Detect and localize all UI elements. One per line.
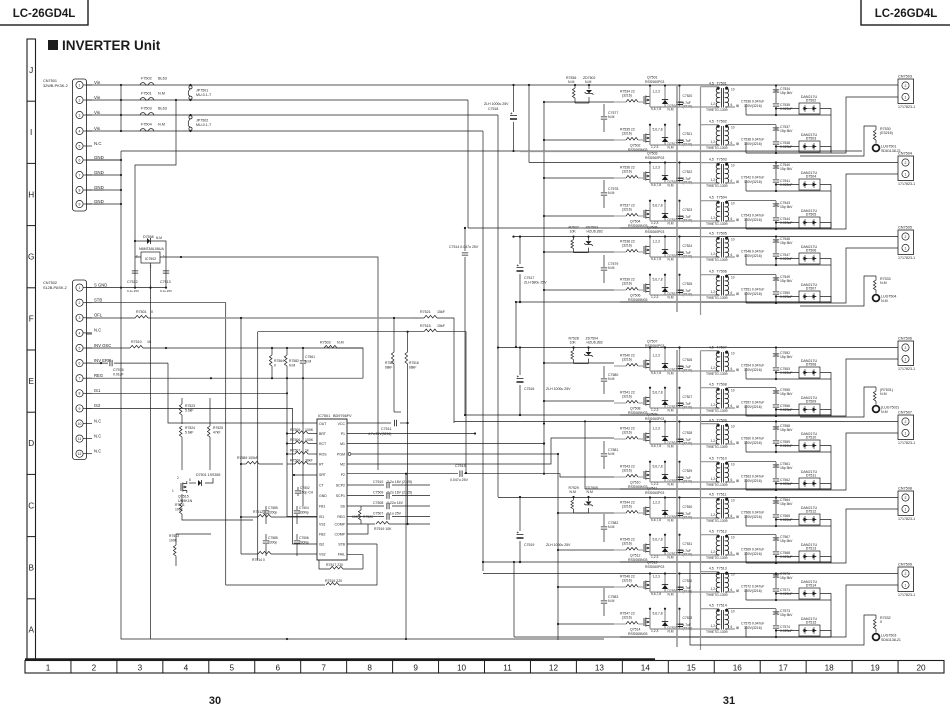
diode pack D7514 (799, 588, 820, 599)
wire pair bottom rails gray overlay (620, 151, 831, 153)
svg-text:N.M: N.M (668, 372, 674, 376)
wire Vin tie vertical (120, 85, 122, 131)
svg-text:8: 8 (367, 663, 372, 672)
svg-text:D: D (28, 439, 34, 448)
wire channel drop (649, 86, 651, 108)
svg-text:A: A (28, 626, 34, 635)
diode pack D7504 (799, 179, 820, 190)
resistor R7539 (626, 287, 638, 290)
svg-text:D7510: D7510 (806, 436, 817, 440)
svg-text:1: 1 (905, 357, 907, 361)
svg-text:100V(3216): 100V(3216) (744, 479, 762, 483)
CN7506 pin 1 (902, 355, 909, 362)
svg-text:6: 6 (731, 217, 733, 221)
svg-text:LC-26GD4L: LC-26GD4L (875, 8, 938, 20)
svg-text:IC7501: IC7501 (318, 414, 330, 418)
svg-text:N.M: N.M (570, 490, 577, 494)
svg-text:N.M: N.M (587, 490, 594, 494)
wire lamp output low (728, 461, 776, 463)
svg-text:(3216): (3216) (622, 207, 632, 211)
svg-text:100V(3216): 100V(3216) (744, 441, 762, 445)
svg-text:D7514: D7514 (806, 584, 817, 588)
capacitor C7564 (775, 498, 777, 501)
svg-text:5,6,7,8: 5,6,7,8 (651, 183, 661, 187)
svg-text:6: 6 (275, 663, 280, 672)
svg-text:330Np: 330Np (299, 510, 309, 514)
svg-text:CN7506: CN7506 (898, 337, 912, 341)
svg-text:15p 5kV: 15p 5kV (780, 205, 793, 209)
wire source/gnd link (650, 628, 716, 630)
connector CN7502 (73, 280, 87, 460)
svg-text:15p 5kV: 15p 5kV (780, 576, 793, 580)
CN7502 pin 2 (76, 299, 83, 306)
capacitor C7534 (775, 86, 777, 90)
capacitor C7550 (773, 292, 779, 294)
svg-text:IS2: IS2 (319, 542, 324, 546)
svg-text:2: 2 (79, 98, 81, 102)
diode D7527 (664, 535, 666, 555)
svg-text:0.023uF: 0.023uF (780, 145, 792, 149)
capacitor C7563 (736, 480, 739, 483)
capacitor C7504 (296, 506, 298, 510)
svg-text:RSS065N03: RSS065N03 (628, 298, 648, 302)
svg-text:N.M: N.M (289, 364, 295, 368)
capacitor C7523 (679, 201, 681, 221)
svg-text:S GND: S GND (94, 282, 107, 287)
svg-text:E: E (28, 377, 34, 386)
svg-text:1,2: 1,2 (711, 178, 716, 182)
resistor R7564 (271, 348, 273, 355)
svg-text:4: 4 (79, 331, 81, 335)
svg-text:0.22u 16V: 0.22u 16V (387, 501, 404, 505)
svg-text:1717823-1: 1717823-1 (898, 256, 915, 260)
resistor R7508 (287, 463, 295, 465)
svg-text:10: 10 (731, 498, 735, 502)
wire PGM (348, 453, 351, 456)
capacitor C7522 (679, 163, 681, 184)
diode pack D7503 (799, 141, 820, 152)
svg-text:1: 1 (905, 507, 907, 511)
svg-text:IS2: IS2 (94, 403, 101, 408)
wire gray buses (676, 86, 678, 647)
svg-text:FB1: FB1 (319, 504, 325, 508)
svg-text:N.M: N.M (880, 392, 887, 396)
svg-text:9: 9 (79, 407, 81, 411)
transistor Q7515 (181, 483, 183, 492)
svg-text:N.C: N.C (94, 418, 101, 423)
svg-text:10: 10 (731, 201, 735, 205)
svg-text:R7507: R7507 (290, 449, 300, 453)
wire channel drop (649, 348, 651, 372)
resistor R7511 (181, 494, 183, 503)
svg-text:R7521: R7521 (420, 310, 431, 314)
wire INV ERR (168, 363, 317, 423)
svg-text:C7585: C7585 (268, 536, 278, 540)
svg-text:5,6,7,8: 5,6,7,8 (653, 204, 663, 208)
svg-text:D7513: D7513 (806, 547, 817, 551)
capacitor C7555 (775, 388, 777, 390)
svg-text:1,2: 1,2 (711, 216, 716, 220)
svg-text:Vin: Vin (94, 110, 101, 115)
svg-text:C7526: C7526 (683, 358, 693, 362)
wire dan links (746, 552, 831, 563)
svg-text:1,2: 1,2 (711, 140, 716, 144)
transformer T7514 (721, 610, 723, 630)
svg-text:(3216): (3216) (622, 243, 632, 247)
svg-text:8: 8 (79, 392, 81, 396)
wire channel drop (649, 201, 651, 221)
capacitor C7586 (265, 534, 267, 540)
wire M2 (347, 438, 614, 464)
zener ZD7503 (588, 237, 590, 241)
svg-text:Vin: Vin (94, 126, 101, 131)
diode D7529 (664, 609, 666, 629)
svg-text:OFL: OFL (94, 313, 103, 318)
capacitor C7572 (736, 590, 739, 593)
wire source/gnd link (650, 370, 716, 372)
svg-text:4,5: 4,5 (709, 418, 714, 422)
svg-text:T7511: T7511 (717, 492, 727, 496)
svg-text:D7505: D7505 (806, 213, 817, 217)
svg-text:1717823-1: 1717823-1 (898, 182, 915, 186)
CN7503 pin 1 (902, 93, 909, 100)
wire IS2 (86, 408, 317, 544)
svg-text:ROS: ROS (319, 452, 327, 456)
wire dan links (746, 218, 831, 229)
capacitor C7509 (347, 495, 384, 497)
wire trunk D (528, 85, 530, 163)
svg-text:4,5: 4,5 (709, 81, 714, 85)
wire pair top rails (514, 236, 899, 238)
svg-text:RSS065N03: RSS065N03 (628, 148, 648, 152)
wire channel drop (649, 422, 651, 445)
wire dan links (746, 589, 831, 600)
wire secondary low (727, 294, 738, 295)
svg-text:(3216): (3216) (622, 430, 632, 434)
wire primary ties (701, 274, 719, 276)
wire primary ties (701, 86, 719, 88)
svg-text:7: 7 (79, 377, 81, 381)
svg-text:6: 6 (731, 440, 733, 444)
svg-text:15p 5kV: 15p 5kV (780, 129, 793, 133)
svg-text:1717823-1: 1717823-1 (898, 517, 915, 521)
svg-text:32WB-PK3K-2: 32WB-PK3K-2 (43, 84, 68, 88)
svg-text:10: 10 (731, 87, 735, 91)
resistor R7536 (574, 85, 576, 88)
svg-text:5,6,7,8: 5,6,7,8 (653, 128, 663, 132)
svg-text:N.M: N.M (337, 341, 344, 345)
wire source/gnd link (650, 144, 716, 146)
svg-text:1717823-1: 1717823-1 (898, 367, 915, 371)
svg-text:G: G (28, 253, 34, 262)
CN7501 pin 1 (76, 81, 83, 88)
resistor R7541 (626, 400, 638, 403)
CN7505 pin 2 (902, 233, 909, 240)
resistor R7528 (573, 348, 575, 351)
resistor R7516 (407, 332, 409, 352)
fuse F7502 (140, 83, 154, 85)
svg-text:R7514 0: R7514 0 (252, 558, 265, 562)
wire channel drop (649, 163, 651, 184)
svg-text:1: 1 (905, 431, 907, 435)
svg-text:10: 10 (457, 663, 467, 672)
wire INV OSC bias line (143, 348, 363, 378)
transformer T7503 (721, 164, 723, 184)
wire dan return (830, 526, 832, 563)
svg-text:31: 31 (723, 695, 735, 707)
svg-text:T99ETG-1309: T99ETG-1309 (706, 409, 728, 413)
CN7508 pin 2 (902, 494, 909, 501)
svg-text:15p 5kV: 15p 5kV (780, 466, 793, 470)
wire channel drop (649, 237, 651, 258)
svg-text:GND: GND (94, 199, 104, 204)
svg-text:15p 5kV: 15p 5kV (780, 355, 793, 359)
svg-text:CN7508: CN7508 (898, 487, 912, 491)
svg-text:0.023uF: 0.023uF (780, 629, 792, 633)
wire branch pin2 down to regulator (135, 100, 176, 241)
svg-text:LC-26GD4L: LC-26GD4L (13, 8, 76, 20)
model label box top-right (861, 0, 950, 25)
resistor R7523 (181, 398, 183, 404)
svg-text:VS2: VS2 (319, 552, 326, 556)
svg-text:C7527: C7527 (683, 395, 693, 399)
svg-text:R7516: R7516 (409, 361, 419, 365)
diode pack D7513 (799, 551, 820, 562)
svg-text:C7514 0.047u 25V: C7514 0.047u 25V (449, 245, 479, 249)
svg-text:C7522: C7522 (683, 170, 693, 174)
svg-text:N.C: N.C (94, 328, 101, 333)
diode D7558 (135, 241, 166, 257)
wire lamp output high (775, 84, 777, 86)
diode D7525 (664, 462, 666, 482)
svg-text:C7516: C7516 (524, 387, 534, 391)
svg-text:1,2: 1,2 (711, 550, 716, 554)
wire OFL (148, 317, 424, 319)
capacitor C7527 (679, 388, 681, 408)
wire source/gnd link (650, 106, 716, 108)
capacitor C7561 (775, 462, 777, 464)
svg-text:RCT: RCT (319, 442, 327, 446)
svg-text:100V(3216): 100V(3216) (744, 180, 762, 184)
svg-text:2: 2 (905, 84, 907, 88)
svg-text:5: 5 (230, 663, 235, 672)
wire S GND (86, 287, 166, 289)
lug terminal LUG7501 (873, 145, 880, 152)
svg-text:200Np: 200Np (299, 540, 309, 544)
diode D7519 (664, 201, 666, 221)
svg-text:30: 30 (209, 695, 221, 707)
resistor R7516b (226, 584, 325, 586)
svg-text:47kF: 47kF (213, 431, 221, 435)
capacitor C7562 (773, 479, 779, 481)
wire secondary low (727, 554, 738, 555)
capacitor C7519 electrolytic (519, 497, 521, 531)
wire secondary low (727, 481, 738, 482)
wire trunk C (497, 115, 499, 497)
CN7501 pin 8 (76, 186, 83, 193)
svg-text:RSS060P03: RSS060P03 (645, 344, 664, 348)
svg-text:N.M: N.M (608, 452, 615, 456)
svg-text:RSS060P03: RSS060P03 (645, 417, 664, 421)
svg-text:T99ETG-1309: T99ETG-1309 (706, 593, 728, 597)
wire secondary low (727, 144, 738, 145)
capacitor C7524 (679, 237, 681, 258)
svg-text:FAIL: FAIL (338, 552, 345, 556)
wire REG (86, 377, 363, 379)
wire primary ties (701, 162, 719, 164)
resistor R7519 (347, 523, 375, 525)
wire dan return (830, 600, 832, 637)
CN7502 pin 10 (76, 420, 83, 427)
svg-text:R7508: R7508 (290, 459, 300, 463)
svg-text:13: 13 (595, 663, 605, 672)
svg-text:T99ETG-1309: T99ETG-1309 (706, 146, 728, 150)
svg-text:JP7502: JP7502 (196, 119, 208, 123)
svg-text:4,5: 4,5 (709, 529, 714, 533)
resistor R7525 (209, 398, 211, 426)
capacitor C7508 (347, 505, 384, 507)
svg-text:1: 1 (46, 663, 51, 672)
svg-text:R7501: R7501 (136, 310, 147, 314)
svg-text:R7510: R7510 (131, 340, 142, 344)
diode D7501 (189, 482, 196, 484)
capacitor C7526 (679, 348, 681, 372)
wire trunk pin2 down (467, 100, 469, 228)
resistor R7547 (626, 621, 638, 624)
CN7502 pin 8 (76, 390, 83, 397)
capacitor C7538 (773, 142, 779, 144)
svg-text:(3216): (3216) (622, 615, 632, 619)
wire GND pin stub (86, 174, 121, 176)
svg-text:(3216): (3216) (622, 169, 632, 173)
svg-text:T7503: T7503 (717, 157, 727, 161)
wire dan links (746, 515, 831, 526)
svg-text:0: 0 (880, 620, 882, 624)
svg-text:15p 5kV: 15p 5kV (780, 241, 793, 245)
svg-text:0.1u 25V: 0.1u 25V (127, 289, 139, 293)
svg-text:CN7505: CN7505 (898, 226, 912, 230)
capacitor C7574 (773, 626, 779, 628)
svg-text:D7558: D7558 (143, 235, 154, 239)
svg-text:68kF: 68kF (385, 366, 392, 370)
svg-text:R7522: R7522 (385, 361, 395, 365)
svg-text:1,2,3: 1,2,3 (653, 575, 660, 579)
diode D7516 (664, 86, 666, 108)
svg-text:C7515: C7515 (455, 464, 466, 468)
svg-text:CN7507: CN7507 (898, 411, 912, 415)
svg-text:10: 10 (731, 424, 735, 428)
svg-text:R7511: R7511 (175, 503, 185, 507)
CN7502 pin 3 (76, 314, 83, 321)
wire secondary low (727, 517, 738, 518)
svg-text:D7508: D7508 (806, 363, 817, 367)
wire VCC drop (407, 423, 409, 524)
svg-text:T7502: T7502 (717, 119, 727, 123)
svg-text:10: 10 (731, 609, 735, 613)
capacitor C7528 (679, 422, 681, 445)
svg-text:20: 20 (916, 663, 926, 672)
svg-text:T7509: T7509 (717, 418, 727, 422)
connector CN7503 (898, 79, 914, 104)
svg-text:VCC: VCC (338, 422, 346, 426)
svg-text:C7523: C7523 (683, 208, 693, 212)
capacitor C7502 (297, 487, 299, 490)
svg-text:12: 12 (549, 663, 559, 672)
CN7501 pin 3 (76, 111, 83, 118)
svg-text:1: 1 (905, 583, 907, 587)
svg-text:STB: STB (338, 542, 345, 546)
svg-text:10: 10 (731, 275, 735, 279)
resistor R7510 (86, 347, 130, 349)
title INVERTER Unit (48, 40, 58, 50)
connector CN7506 (898, 341, 914, 366)
capacitor C7581 (603, 441, 605, 453)
capacitor C7556 (773, 405, 779, 407)
svg-text:RSS065N03: RSS065N03 (628, 411, 648, 415)
svg-text:9: 9 (79, 202, 81, 206)
svg-text:0.022uF: 0.022uF (780, 592, 792, 596)
svg-text:N.M: N.M (585, 80, 592, 84)
transformer T7513 (721, 573, 723, 593)
capacitor C7557 (736, 406, 739, 409)
svg-text:C7533: C7533 (683, 616, 693, 620)
svg-text:N.M: N.M (881, 299, 888, 303)
capacitor C7543 (736, 219, 739, 222)
resistor R7513 (176, 534, 211, 545)
svg-text:MU-0.1-T: MU-0.1-T (196, 123, 212, 127)
capacitor C7510 (347, 484, 384, 486)
svg-text:(3216): (3216) (622, 131, 632, 135)
svg-text:5,6,7,8: 5,6,7,8 (653, 278, 663, 282)
capacitor C7560 (736, 442, 739, 445)
svg-text:N.M: N.M (608, 599, 615, 603)
svg-text:C7576: C7576 (113, 368, 124, 372)
svg-text:1: 1 (905, 172, 907, 176)
svg-text:Q7509: Q7509 (647, 413, 658, 417)
wire primary ties (701, 236, 719, 238)
transformer T7506 (721, 276, 723, 296)
svg-text:100V(3216): 100V(3216) (744, 368, 762, 372)
transformer T7510 (721, 463, 723, 483)
svg-text:C7524: C7524 (683, 244, 693, 248)
CN7502 pin 9 (76, 405, 83, 412)
capacitor C7585 (265, 506, 267, 510)
resistor R7514 (241, 553, 258, 555)
svg-text:6: 6 (189, 478, 191, 482)
svg-text:10: 10 (731, 351, 735, 355)
wire dan links (746, 142, 831, 153)
wire source/gnd link (650, 182, 716, 184)
svg-text:GND: GND (94, 155, 104, 160)
svg-text:REG: REG (94, 373, 103, 378)
svg-text:F7501: F7501 (141, 92, 152, 96)
svg-text:(3216): (3216) (622, 504, 632, 508)
svg-text:2200p: 2200p (268, 540, 277, 544)
svg-text:15p 5kV: 15p 5kV (780, 167, 793, 171)
capacitor C7512 (134, 257, 136, 287)
svg-text:ZLH 1000u 25V: ZLH 1000u 25V (546, 387, 571, 391)
resistor R7540 (626, 363, 638, 366)
svg-text:RSS065N03: RSS065N03 (628, 485, 648, 489)
wire primary ties (701, 461, 719, 463)
capacitor C7566 (736, 516, 739, 519)
svg-text:T7508: T7508 (717, 382, 727, 386)
wire lower trunks (405, 474, 407, 639)
svg-text:10: 10 (731, 125, 735, 129)
svg-text:4,5: 4,5 (709, 231, 714, 235)
svg-text:HZU6.2B2: HZU6.2B2 (587, 230, 603, 234)
wire STB (86, 303, 226, 585)
